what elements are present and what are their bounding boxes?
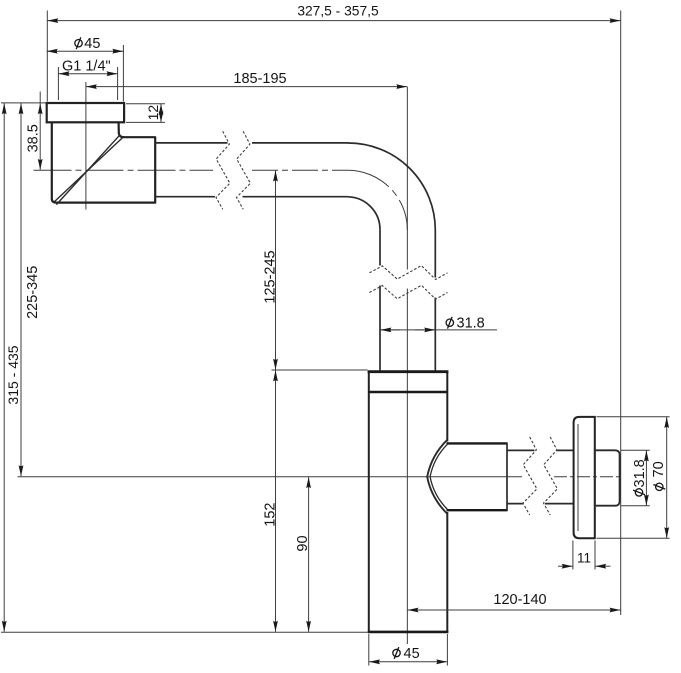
dimension 11 (flange thickness): [558, 541, 611, 570]
svg-text:45: 45: [404, 646, 420, 662]
branch socket top edge (bold): [447, 442, 508, 444]
svg-text:152: 152: [262, 502, 278, 526]
svg-text:70: 70: [651, 461, 667, 477]
svg-text:31.8: 31.8: [632, 459, 648, 487]
pipe vertical right edge: [434, 230, 436, 278]
wire: extension/centre line outlet level (y=476.8): [18, 476, 523, 478]
dimension 38.5: [26, 92, 42, 170]
break symbol vertical pipe: [369, 266, 447, 300]
elbow body: [52, 123, 155, 203]
dimension D45 top: [47, 36, 124, 102]
bottle trap top edge (bold): [368, 370, 449, 373]
dimension D70: [597, 417, 670, 539]
outlet pipe bottom edge: [507, 503, 524, 505]
wire: extension line bottom reference (y=632.2): [1, 631, 368, 633]
branch bulge inner curve: [430, 444, 448, 510]
break symbol outlet pipe: [523, 437, 557, 515]
outlet pipe top edge: [507, 449, 535, 451]
dimension D31.8 vertical pipe: [380, 316, 497, 332]
bottle trap bottom edge (bold): [368, 631, 449, 634]
svg-text:45: 45: [84, 36, 100, 52]
dimension 90: [295, 477, 311, 632]
svg-text:185-195: 185-195: [233, 71, 286, 87]
svg-text:11: 11: [577, 551, 591, 566]
dimension D45 bottom: [369, 634, 448, 666]
elbow diagonal 2: [56, 135, 120, 205]
svg-text:90: 90: [295, 535, 311, 551]
svg-text:327,5 - 357,5: 327,5 - 357,5: [297, 3, 379, 18]
wire: extension line top-left at flange top (y=102.9): [1, 102, 46, 104]
svg-text:125-245: 125-245: [262, 250, 278, 303]
branch socket bottom edge (bold): [447, 509, 508, 511]
svg-text:120-140: 120-140: [493, 592, 546, 608]
dimension 152: [262, 370, 278, 632]
svg-text:31.8: 31.8: [457, 316, 485, 332]
svg-text:12: 12: [145, 105, 161, 121]
pipe bend centre arc: [348, 170, 407, 230]
svg-text:225-345: 225-345: [25, 266, 41, 319]
dimension G1 1/4": [58, 59, 117, 101]
pipe horizontal top edge: [155, 142, 227, 144]
wire: extension line bottle top level (y=370): [272, 369, 368, 371]
elbow diagonal 1: [54, 138, 123, 203]
dimension D31.8 outlet end: [621, 450, 650, 506]
break symbol horizontal pipe: [216, 131, 250, 209]
pipe bend outer arc: [348, 143, 435, 230]
node: inlet centreline vertical: [85, 82, 87, 210]
bottle trap cap ring line: [368, 391, 448, 393]
dimension 125-245: [262, 171, 278, 370]
pipe horizontal bottom edge: [155, 196, 215, 198]
svg-text:315 - 435: 315 - 435: [5, 345, 21, 404]
bottle trap body left edge: [368, 372, 370, 633]
branch socket right face: [506, 442, 508, 511]
wall flange (escutcheon): [574, 417, 595, 538]
dimension 12 (flange height): [126, 104, 165, 123]
wire: top extension line left (x=47.3): [46, 11, 48, 102]
pipe vertical left edge: [379, 230, 381, 266]
wall flange inner edge line: [577, 424, 579, 531]
node: horizontal pipe centreline (dash-dot): [34, 169, 214, 171]
dimension 327,5 - 357,5 top: [47, 3, 620, 20]
svg-text:G1 1/4": G1 1/4": [62, 59, 111, 75]
dimension 225-345: [21, 103, 41, 476]
node: vertical pipe centreline (x=407.35): [406, 87, 408, 270]
svg-text:38.5: 38.5: [26, 124, 42, 152]
dimension 185-195: [86, 71, 407, 87]
branch bulge outer curve: [427, 440, 447, 514]
bottle trap body right edge: [446, 372, 448, 442]
wire: top extension line right full height (x=620.7): [620, 11, 622, 616]
dimension 120-140: [408, 592, 621, 610]
outlet pipe end: [595, 450, 620, 505]
pipe bend inner arc: [348, 197, 380, 230]
dimension 315 - 435: [4, 103, 21, 632]
inlet flange: [47, 103, 124, 122]
